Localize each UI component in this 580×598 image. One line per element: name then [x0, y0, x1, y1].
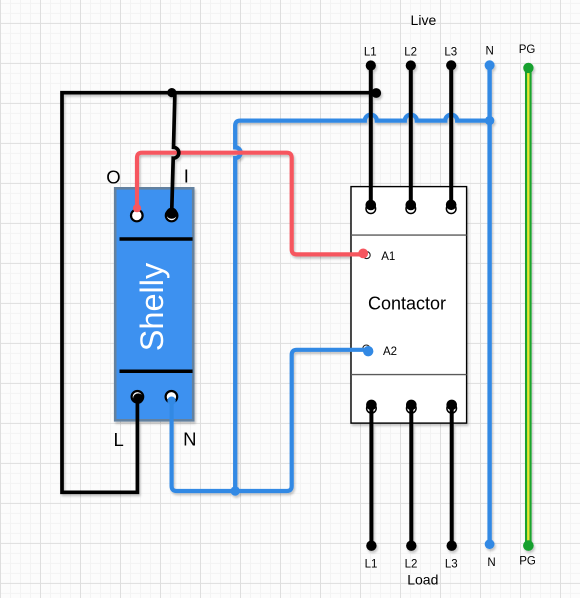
svg-text:L2: L2: [404, 47, 417, 59]
svg-text:L3: L3: [445, 559, 458, 571]
svg-text:Shelly: Shelly: [134, 262, 170, 351]
svg-text:I: I: [184, 166, 189, 187]
svg-text:L2: L2: [405, 559, 418, 571]
svg-text:Contactor: Contactor: [368, 294, 446, 314]
svg-text:PG: PG: [519, 556, 536, 568]
svg-text:A2: A2: [383, 346, 397, 358]
svg-text:O: O: [106, 167, 120, 188]
svg-text:N: N: [486, 46, 494, 58]
svg-text:A1: A1: [381, 251, 395, 263]
svg-text:L1: L1: [365, 559, 378, 571]
svg-text:N: N: [487, 557, 495, 569]
svg-text:Live: Live: [411, 12, 437, 28]
svg-text:PG: PG: [519, 44, 536, 56]
svg-text:L1: L1: [364, 47, 377, 59]
svg-text:L3: L3: [444, 47, 457, 59]
svg-text:Load: Load: [407, 572, 438, 588]
svg-text:N: N: [183, 428, 196, 449]
svg-text:L: L: [113, 429, 123, 450]
